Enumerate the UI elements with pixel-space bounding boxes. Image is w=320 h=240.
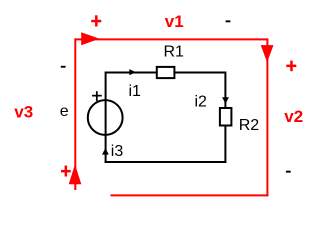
plus sign of source e (black) xyxy=(92,95,102,97)
arrowhead v1 (points right) xyxy=(81,32,99,45)
svg-text:v2: v2 xyxy=(284,107,303,126)
minus sign bottom-right (polarity of v2) xyxy=(286,171,291,173)
svg-text:i2: i2 xyxy=(195,94,208,111)
wire red loop right (v2 branch) xyxy=(266,38,268,196)
svg-text:e: e xyxy=(60,103,69,120)
resistor R2 (box) xyxy=(220,108,232,126)
wire red loop top (v1 branch) xyxy=(75,38,267,40)
wire red loop bottom xyxy=(111,194,269,196)
svg-text:R2: R2 xyxy=(239,117,260,134)
plus sign top (red, polarity of v1) xyxy=(91,20,101,23)
plus sign bottom-left (red, polarity of v3) xyxy=(61,170,71,173)
wire red loop left (v3 branch) xyxy=(74,38,76,190)
svg-text:R1: R1 xyxy=(164,43,185,60)
wire black right vertical (to R2) xyxy=(224,72,226,164)
plus sign right (red, polarity of v2) xyxy=(286,65,296,68)
arrowhead v3 (points up) xyxy=(69,164,82,184)
svg-text:v3: v3 xyxy=(14,103,33,122)
voltage source e (circle) xyxy=(88,100,123,135)
svg-text:i3: i3 xyxy=(111,143,124,160)
arrowhead v2 (points down) xyxy=(261,45,274,62)
minus sign left (polarity of v3) xyxy=(61,66,66,68)
wire black bottom xyxy=(105,161,227,163)
resistor R1 (box) xyxy=(157,67,175,78)
wire black top (source to R1 to right corner) xyxy=(106,72,226,74)
minus sign top (polarity of v1) xyxy=(226,20,231,22)
svg-text:v1: v1 xyxy=(165,12,184,31)
arrowhead i2 (points down) xyxy=(222,97,229,104)
arrowhead i3 (points up) xyxy=(102,148,109,155)
svg-text:i1: i1 xyxy=(129,83,142,100)
arrowhead i1 (points right) xyxy=(129,69,136,75)
wire black left vertical (through source) xyxy=(105,72,107,164)
